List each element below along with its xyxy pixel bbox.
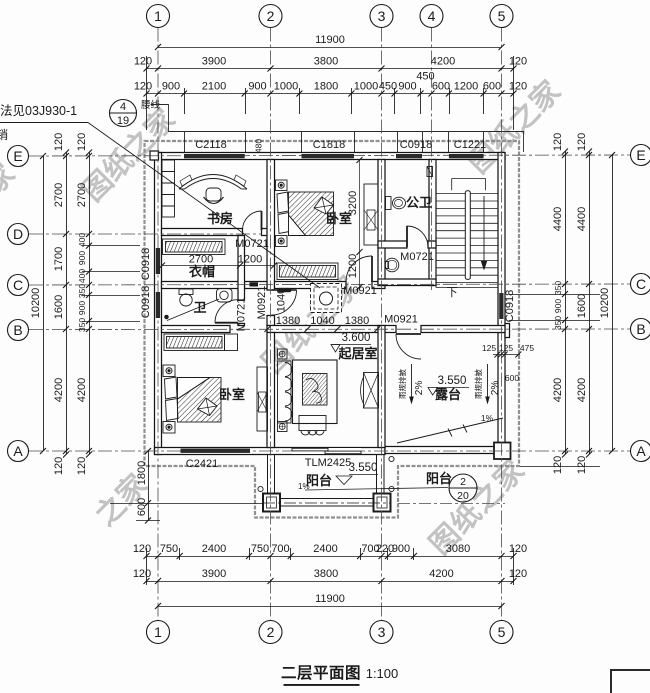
svg-text:E: E (636, 147, 645, 163)
svg-text:475: 475 (520, 343, 534, 353)
svg-text:11900: 11900 (315, 34, 345, 46)
study desk curved (179, 175, 247, 190)
svg-text:120: 120 (509, 81, 527, 93)
svg-text:120: 120 (509, 543, 527, 555)
right dim ticks (562, 149, 568, 458)
svg-text:400: 400 (77, 233, 87, 247)
wall B axis right of terrace door (421, 326, 505, 333)
svg-text:2400: 2400 (313, 543, 337, 555)
svg-text:露台: 露台 (435, 387, 461, 402)
bedroom2 bed pillows (165, 377, 179, 421)
axis B horizontal (29, 328, 631, 331)
svg-text:120: 120 (134, 56, 152, 68)
svg-text:2: 2 (267, 624, 275, 640)
living sofa left (278, 361, 292, 423)
axis bubble D left (8, 224, 29, 245)
bottom dim ticks (144, 553, 517, 559)
door M0721 study leaf (261, 211, 263, 230)
svg-text:1380: 1380 (345, 315, 369, 327)
door M0921 bedroom1 arc (346, 256, 372, 282)
svg-text:2700: 2700 (53, 183, 65, 207)
bath floor drain (165, 315, 169, 319)
sliding door leaf 2 (325, 451, 361, 454)
svg-text:900: 900 (77, 251, 87, 265)
svg-text:2: 2 (460, 476, 466, 488)
svg-text:B: B (13, 322, 22, 338)
left extension lines (82, 246, 140, 322)
svg-text:2700: 2700 (76, 183, 88, 207)
svg-text:A: A (636, 443, 646, 459)
wall axis3 upper (bedroom1/pub-bath) (378, 160, 385, 286)
bottom dim line row2 (147, 581, 514, 583)
corner post NW (150, 151, 159, 160)
svg-text:400: 400 (77, 269, 87, 283)
closet wardrobe hatched (163, 239, 226, 255)
svg-text:20: 20 (457, 490, 469, 502)
svg-text:阳台: 阳台 (306, 473, 332, 488)
svg-text:1200: 1200 (347, 254, 359, 278)
svg-text:600: 600 (505, 373, 519, 383)
svg-text:TLM2425: TLM2425 (305, 457, 351, 469)
svg-text:3.600: 3.600 (342, 332, 371, 344)
svg-text:5: 5 (498, 624, 506, 640)
svg-text:350: 350 (553, 316, 563, 330)
svg-text:C1818: C1818 (313, 139, 345, 151)
svg-text:4200: 4200 (431, 56, 455, 68)
axis bubble 1 top (147, 5, 170, 28)
svg-text:C0918: C0918 (140, 286, 152, 318)
svg-text:1000: 1000 (354, 81, 378, 93)
svg-text:1:100: 1:100 (366, 666, 399, 681)
svg-text:衣帽: 衣帽 (189, 264, 215, 279)
svg-text:1: 1 (154, 624, 162, 640)
top dim line row3 (147, 93, 514, 95)
svg-text:4200: 4200 (576, 378, 588, 402)
west exterior wall (axis 1) (155, 153, 162, 455)
left dim ticks (40, 153, 46, 454)
left dim chain inner (89, 153, 91, 455)
axis 2 vertical (270, 28, 272, 621)
lintel mark corridor (250, 282, 259, 286)
svg-text:1200: 1200 (238, 254, 262, 266)
svg-text:900: 900 (248, 81, 266, 93)
balcony column right (374, 494, 391, 512)
axis bubble 1 bottom (147, 621, 170, 644)
axis E horizontal (29, 155, 631, 156)
svg-text:1%: 1% (481, 413, 494, 423)
svg-text:600: 600 (432, 81, 450, 93)
wall axis2 between door and B (267, 316, 275, 326)
closet-hall divider wall (238, 236, 245, 301)
svg-text:120: 120 (509, 568, 527, 580)
top dim line row2 (147, 68, 514, 70)
top dim ticks (155, 44, 505, 50)
svg-text:1000: 1000 (274, 81, 298, 93)
stair center rail (465, 191, 470, 280)
door M0921 hall leaf blob (278, 288, 291, 291)
svg-text:600: 600 (136, 498, 148, 516)
bath shower line (167, 299, 219, 321)
window C1818 north (302, 154, 355, 158)
door M0721 pub-bath leaf (406, 226, 408, 247)
axis 1 vertical (157, 28, 159, 621)
svg-text:3800: 3800 (314, 568, 338, 580)
svg-text:900: 900 (392, 543, 410, 555)
north exterior wall (E axis) (155, 153, 506, 160)
svg-text:4200: 4200 (53, 378, 65, 402)
washbasin nook south wall (378, 279, 436, 286)
window C2118 north (184, 154, 245, 158)
east terrace parapet (498, 333, 505, 454)
sliding door leaf 1 (292, 448, 328, 451)
right dim chain outer (589, 152, 591, 455)
bath basin (217, 289, 233, 303)
svg-text:M0721: M0721 (400, 251, 434, 263)
wall C axis over corridor (245, 282, 268, 289)
svg-text:3080: 3080 (446, 543, 470, 555)
svg-text:二层平面图: 二层平面图 (281, 664, 361, 682)
svg-text:1700: 1700 (53, 247, 65, 271)
svg-text:1600: 1600 (53, 295, 65, 319)
svg-text:900: 900 (77, 301, 87, 315)
balcony west side wall (268, 455, 275, 494)
axis C horizontal (29, 284, 631, 285)
svg-text:1040: 1040 (310, 315, 334, 327)
svg-text:900: 900 (553, 299, 563, 313)
svg-text:公卫: 公卫 (406, 195, 432, 210)
east exterior wall (axis 5) (498, 153, 505, 333)
svg-text:卧室: 卧室 (219, 387, 245, 402)
svg-text:900: 900 (162, 81, 180, 93)
svg-text:11900: 11900 (315, 593, 345, 605)
svg-text:1200: 1200 (454, 81, 478, 93)
wall D axis (study/closet) left part (162, 229, 243, 236)
svg-text:C0918: C0918 (504, 290, 516, 322)
study bookshelf (162, 160, 175, 217)
bottom total dim line 11900 (158, 606, 502, 608)
axis bubble 2 top (259, 5, 282, 28)
window C0918 west lower (156, 292, 160, 318)
svg-text:3: 3 (378, 624, 386, 640)
svg-text:120: 120 (134, 81, 152, 93)
bedroom1 bed mattress hatched (289, 192, 334, 236)
svg-text:起居室: 起居室 (337, 346, 377, 361)
wall axis3 lower (living/terrace) (378, 326, 385, 448)
svg-text:120: 120 (53, 133, 65, 151)
flue with circle (hall) (311, 284, 342, 313)
pub-bath south wall right of door (428, 241, 436, 248)
stair bottom floor line (436, 287, 498, 289)
left dim chain outer (66, 153, 68, 455)
living sofa corner squares (278, 349, 288, 359)
svg-text:1800: 1800 (314, 81, 338, 93)
window jamb lines below belt course (185, 132, 484, 153)
sliding door TLM2425 opening (292, 448, 361, 454)
downspout circles balcony (389, 456, 394, 461)
svg-text:120: 120 (76, 133, 88, 151)
right dim texts (552, 133, 611, 474)
bedroom2 nightstand lower (163, 422, 175, 434)
axis bubble 5 bottom (490, 621, 513, 644)
svg-text:10200: 10200 (30, 288, 42, 319)
svg-text:M0921: M0921 (384, 314, 418, 326)
svg-text:2400: 2400 (202, 543, 226, 555)
bedroom1 bed folded quilt fan (314, 197, 334, 214)
terrace column at A/5 (494, 443, 511, 460)
bath toilet (179, 289, 193, 295)
stair treads (436, 194, 498, 283)
axis bubble 3 top (370, 5, 393, 28)
svg-text:4200: 4200 (552, 378, 564, 402)
window C2421 south (181, 449, 251, 453)
svg-text:350: 350 (553, 281, 563, 295)
door M0921 hall leaf (272, 289, 297, 291)
svg-text:法见03J930-1: 法见03J930-1 (0, 104, 77, 118)
svg-text:C2421: C2421 (186, 458, 218, 470)
svg-text:750: 750 (251, 543, 269, 555)
detail callout 2/20 balcony (449, 474, 477, 502)
hall dim 1380/1040/1380 ticks (265, 326, 381, 332)
terrace parapet dim (493, 354, 520, 356)
neighbour drawing corner bottom-right (611, 670, 650, 693)
wall C axis right of bedroom door (372, 282, 385, 289)
south terrace parapet (385, 447, 505, 454)
axis bubble B left (8, 320, 29, 341)
svg-text:120: 120 (76, 457, 88, 475)
svg-text:腰线: 腰线 (141, 99, 161, 111)
bedroom2 folded quilt fan (198, 398, 218, 416)
bedroom1 dresser (364, 184, 378, 245)
axis 5 vertical (501, 28, 503, 621)
wall D axis right part (262, 229, 268, 236)
svg-text:卫: 卫 (193, 300, 206, 315)
axis bubble B right (631, 319, 650, 340)
svg-text:3: 3 (378, 8, 386, 24)
wall axis2 lower (bedroom2/living) (267, 333, 275, 448)
svg-text:C: C (13, 277, 23, 293)
svg-text:2: 2 (267, 8, 275, 24)
svg-text:3900: 3900 (202, 56, 226, 68)
terrace 1% slope line (397, 418, 503, 443)
living chair right (364, 373, 379, 409)
svg-text:120: 120 (509, 56, 527, 68)
detail callout 4/19 (110, 100, 137, 127)
leader underline and diagonal to flue (0, 122, 88, 124)
right total dim line 10200 (612, 155, 614, 451)
living small sofa bottom (299, 416, 326, 431)
svg-text:3.550: 3.550 (349, 462, 378, 474)
svg-text:10200: 10200 (599, 288, 611, 319)
bedroom1 bed pillows (277, 192, 290, 234)
svg-text:1800: 1800 (136, 461, 148, 485)
parapet pilaster at B/5 (505, 324, 510, 338)
svg-text:120: 120 (133, 543, 151, 555)
svg-text:M0721: M0721 (236, 298, 248, 332)
washbasin nook basin (385, 258, 399, 272)
svg-text:书房: 书房 (207, 211, 233, 226)
svg-text:1380: 1380 (276, 315, 300, 327)
door M0921 terrace leaf (396, 333, 421, 335)
axis bubble 4 top (420, 5, 443, 28)
svg-text:2%: 2% (414, 381, 425, 396)
svg-text:1600: 1600 (576, 294, 588, 318)
stair top landing outline (452, 179, 486, 191)
svg-text:阳台: 阳台 (426, 471, 452, 486)
right extension lines (509, 295, 600, 467)
stair down arrow (483, 196, 485, 267)
svg-text:750: 750 (160, 543, 178, 555)
svg-text:3800: 3800 (314, 56, 338, 68)
svg-text:C2118: C2118 (195, 139, 227, 151)
lower floor outline dash under terrace (398, 503, 505, 505)
bedroom2 bed mattress hatched (178, 378, 222, 423)
axis 3 vertical (381, 28, 383, 621)
balcony column left (263, 494, 280, 512)
closet dim line (162, 265, 274, 267)
bedroom2 nightstand upper (163, 365, 175, 377)
lower-floor eave outline (grey) (145, 141, 520, 518)
wall B axis left segment (162, 326, 231, 333)
svg-text:350: 350 (77, 284, 87, 298)
svg-text:M0921: M0921 (256, 286, 268, 320)
top dim texts (134, 34, 527, 93)
svg-text:A: A (13, 443, 23, 459)
south exterior wall (A axis) (155, 448, 386, 455)
svg-text:E: E (13, 148, 22, 164)
wall B axis right segment to terrace door (267, 326, 396, 333)
svg-text:4200: 4200 (429, 568, 453, 580)
top extension lines (147, 56, 514, 130)
door M0721 study arc (243, 211, 262, 230)
svg-text:1: 1 (154, 8, 162, 24)
terrace slope arrow right (485, 364, 490, 405)
svg-text:120: 120 (552, 133, 564, 151)
window C0918 north (396, 154, 422, 158)
wall C axis left (closet/bath) (162, 282, 245, 289)
svg-text:120: 120 (133, 568, 151, 580)
door M0721 pub-bath arc (407, 226, 428, 247)
svg-text:120: 120 (576, 456, 588, 474)
svg-text:120: 120 (552, 456, 564, 474)
svg-text:C0918: C0918 (400, 139, 432, 151)
door M0721 bath leaf (215, 322, 238, 324)
left total dim line 10200 (43, 156, 45, 451)
window C0918 west upper (156, 248, 160, 274)
svg-text:雨规排披: 雨规排披 (397, 369, 407, 399)
living table with rug (293, 360, 338, 424)
svg-text:销: 销 (0, 128, 8, 142)
divider wall below bath door (238, 323, 245, 325)
door M0921 bedroom1 leaf (371, 256, 373, 282)
svg-text:350: 350 (77, 318, 87, 332)
svg-text:下: 下 (446, 287, 458, 299)
balcony railing lines (280, 498, 374, 500)
axis bubble 2 bottom (259, 621, 282, 644)
pub-bath toilet (386, 197, 392, 210)
svg-text:C: C (636, 276, 646, 292)
axis A horizontal (29, 450, 631, 452)
terrace slope arrow left (409, 364, 414, 405)
svg-text:5: 5 (498, 8, 506, 24)
axis bubble C left (8, 275, 29, 296)
axis bubble A left (8, 441, 29, 462)
top total dim line 11900 (158, 47, 502, 49)
svg-text:4: 4 (428, 8, 436, 24)
svg-text:700: 700 (271, 543, 289, 555)
svg-text:2100: 2100 (202, 81, 226, 93)
axis bubble A right (631, 441, 650, 462)
door M0921 terrace arc (396, 334, 421, 359)
svg-text:125: 125 (499, 343, 513, 353)
axis bubble E right (631, 145, 650, 166)
left balcony chain (148, 451, 150, 521)
axis bubble E left (8, 146, 29, 167)
svg-text:125: 125 (482, 343, 496, 353)
wall C axis middle (bedroom1/hall) (275, 282, 347, 289)
bedroom1 nightstand upper (276, 180, 288, 191)
axis bubble 5 top (490, 5, 513, 28)
svg-text:2%: 2% (490, 381, 501, 396)
bottom dim texts (133, 543, 527, 605)
svg-text:D: D (13, 226, 23, 242)
axis D horizontal (29, 233, 262, 235)
svg-text:雨规排披: 雨规排披 (473, 369, 483, 399)
svg-text:C1221: C1221 (454, 139, 486, 151)
svg-text:19: 19 (117, 115, 129, 127)
svg-text:480: 480 (254, 139, 264, 153)
axis 4 vertical (431, 28, 433, 291)
door M0721 bath arc (215, 300, 238, 323)
door M0921 hall arc (272, 290, 297, 315)
svg-text:4400: 4400 (576, 207, 588, 231)
svg-text:450: 450 (379, 81, 397, 93)
svg-text:120: 120 (53, 457, 65, 475)
bottom extension lines (147, 548, 514, 585)
bedroom1 wardrobe hatched (277, 263, 338, 280)
svg-text:1040: 1040 (276, 288, 288, 312)
bedroom2 wardrobe hatched (164, 334, 225, 351)
bedroom1 interior dim line (359, 160, 361, 287)
svg-text:120: 120 (576, 133, 588, 151)
wall axis2 upper part (E to door) (267, 160, 275, 291)
svg-text:600: 600 (483, 81, 501, 93)
svg-text:卧室: 卧室 (326, 211, 352, 226)
svg-text:3900: 3900 (202, 568, 226, 580)
stair side line (435, 194, 437, 288)
bottom dim line row1 (147, 556, 514, 558)
axis bubble 3 bottom (370, 621, 393, 644)
bedroom1 nightstand lower (276, 236, 288, 247)
study chair (206, 188, 221, 201)
window C0918 east (499, 293, 503, 319)
svg-text:C0918: C0918 (140, 248, 152, 280)
svg-text:4200: 4200 (76, 378, 88, 402)
wall axis4 (pub-bath/stairs) (429, 160, 436, 286)
svg-text:3.550: 3.550 (438, 375, 467, 387)
svg-text:4: 4 (120, 101, 126, 113)
balcony east side wall (377, 455, 385, 494)
svg-text:B: B (636, 321, 645, 337)
right dim chain inner (565, 152, 567, 455)
pub-bath south wall left of door (378, 241, 407, 248)
svg-text:900: 900 (398, 81, 416, 93)
svg-text:4400: 4400 (552, 207, 564, 231)
pub-bath vent (427, 167, 433, 177)
roof overhang line above north wall (151, 105, 524, 153)
window C1221 north (449, 154, 484, 158)
left dim texts (30, 133, 148, 516)
axis bubble C right (631, 274, 650, 295)
